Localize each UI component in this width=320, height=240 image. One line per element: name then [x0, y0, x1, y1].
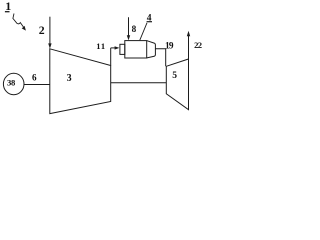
arrowhead of leader arrow — [22, 26, 26, 31]
exhaust arrowhead — [187, 31, 190, 36]
label 3 — [67, 73, 72, 84]
label 4 — [147, 13, 152, 23]
shaft 6 (generator to compressor) — [24, 84, 50, 86]
svg-text:6: 6 — [32, 73, 37, 83]
svg-text:8: 8 — [132, 24, 137, 34]
label 1 — [5, 0, 11, 13]
combustor end cap — [147, 41, 156, 58]
label 38 — [7, 78, 16, 88]
svg-text:11: 11 — [96, 41, 106, 51]
exhaust arrow line 22 — [188, 36, 190, 59]
svg-text:2: 2 — [39, 23, 45, 37]
label 19 — [165, 41, 174, 51]
label 6 — [32, 73, 37, 83]
label 8 — [132, 24, 137, 34]
turbine 5 — [166, 59, 188, 110]
svg-text:38: 38 — [7, 78, 16, 88]
duct 11 arrowhead — [115, 46, 120, 49]
hot gas duct 19 — [155, 49, 165, 66]
label 22 — [194, 40, 202, 50]
underline of label 4 — [147, 21, 152, 23]
fuel arrow line 8 — [128, 17, 130, 35]
duct 11 vertical (compressor exit riser) — [110, 48, 112, 66]
shaft (compressor to turbine) — [111, 82, 167, 84]
duct 11 horizontal into combustor — [111, 47, 116, 49]
svg-text:5: 5 — [172, 71, 177, 81]
svg-text:3: 3 — [67, 73, 72, 84]
svg-text:22: 22 — [194, 40, 202, 50]
svg-text:19: 19 — [165, 41, 174, 51]
label 5 — [172, 71, 177, 81]
underline of label 1 — [5, 11, 10, 13]
inlet air arrow line 2 — [49, 17, 51, 44]
combustor inlet nub — [120, 44, 125, 54]
inlet arrowhead — [48, 43, 51, 48]
leader line from 4 to combustor — [140, 23, 147, 40]
label 11 — [96, 41, 106, 51]
combustor body 4 — [125, 41, 147, 58]
squiggly leader arrow from 1 — [13, 14, 24, 28]
label 2 — [39, 23, 45, 37]
fuel arrowhead — [127, 35, 130, 40]
compressor 3 — [50, 49, 111, 114]
generator circle 38 — [3, 73, 24, 94]
